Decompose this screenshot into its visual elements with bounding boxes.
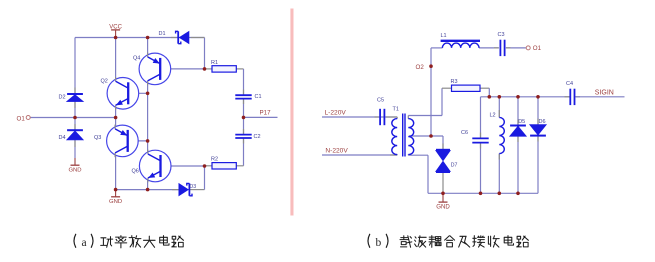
svg-text:D2: D2 — [59, 94, 66, 100]
svg-text:C6: C6 — [461, 130, 468, 136]
svg-text:O1: O1 — [533, 45, 542, 52]
svg-text:GND: GND — [68, 168, 81, 174]
svg-text:P17: P17 — [260, 109, 272, 116]
svg-text:R1: R1 — [211, 60, 218, 66]
svg-text:C1: C1 — [255, 94, 262, 100]
svg-text:T1: T1 — [393, 106, 399, 112]
svg-text:O2: O2 — [416, 64, 425, 71]
svg-text:R2: R2 — [211, 157, 218, 163]
svg-text:C4: C4 — [566, 81, 573, 87]
svg-text:O1: O1 — [17, 115, 26, 122]
svg-text:b: b — [376, 237, 382, 249]
svg-text:N-220V: N-220V — [325, 148, 348, 155]
svg-text:D6: D6 — [539, 119, 546, 125]
svg-text:D5: D5 — [518, 119, 525, 125]
svg-text:D7: D7 — [451, 163, 458, 169]
svg-text:R3: R3 — [451, 79, 458, 85]
svg-text:D3: D3 — [190, 184, 197, 190]
svg-text:Q3: Q3 — [94, 135, 101, 141]
svg-text:C5: C5 — [377, 97, 384, 103]
svg-text:L2: L2 — [490, 113, 496, 119]
svg-text:C3: C3 — [498, 32, 505, 38]
svg-text:L-220V: L-220V — [325, 110, 347, 117]
svg-text:Q2: Q2 — [101, 79, 108, 85]
svg-text:GND: GND — [436, 204, 450, 211]
svg-text:a: a — [82, 237, 87, 249]
svg-text:GND: GND — [109, 199, 122, 205]
svg-text:Q4: Q4 — [133, 56, 140, 62]
svg-text:D4: D4 — [59, 135, 66, 141]
svg-text:SIGIN: SIGIN — [595, 89, 614, 96]
svg-text:C2: C2 — [254, 134, 261, 140]
svg-text:L1: L1 — [441, 33, 447, 39]
svg-text:Q6: Q6 — [132, 168, 139, 174]
svg-text:D1: D1 — [159, 31, 166, 37]
